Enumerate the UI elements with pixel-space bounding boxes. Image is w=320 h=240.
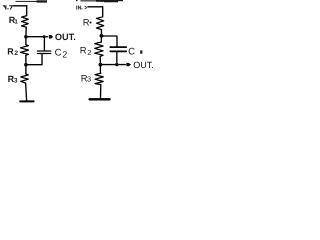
wire C2 top lead: [43, 37, 45, 51]
svg-text:R: R: [80, 45, 87, 56]
svg-text:2: 2: [87, 48, 91, 57]
svg-text:3: 3: [87, 75, 91, 84]
ground (right): [90, 98, 110, 100]
resistor R2 (right): [95, 42, 103, 56]
arrowhead OUT (right): [126, 63, 131, 66]
label C2: [55, 47, 68, 59]
arrowhead OUT (left): [49, 35, 53, 39]
wire node B to OUT arrow (right): [100, 64, 125, 66]
wire node B down to R3 (right): [99, 65, 101, 73]
wire C2 bottom lead to node B: [26, 54, 42, 65]
resistor R1 (right): [97, 17, 104, 30]
svg-text:OUT.: OUT.: [55, 32, 76, 42]
capacitor C1: [110, 46, 126, 48]
junction dot C2 tap: [43, 35, 46, 38]
node A junction dot (right): [100, 34, 104, 38]
wire R2 bottom to node B: [25, 55, 27, 64]
capacitor C2: [37, 50, 50, 52]
wire node A to OUT arrow: [26, 36, 48, 38]
svg-text:C: C: [55, 47, 62, 58]
label R3 (left): [8, 74, 18, 85]
svg-text:2: 2: [62, 50, 67, 60]
crop artifact bar top-left: [16, 0, 48, 2]
wire right input horizontal to corner: [88, 6, 103, 8]
junction dot C1 bottom tap: [115, 63, 118, 66]
svg-text:R: R: [7, 46, 14, 56]
wire node A down to R2 (left): [25, 37, 27, 45]
label R1 (right): [83, 16, 92, 27]
wire node B down to R3 (left): [25, 65, 27, 74]
wire node A down to R2 (right): [100, 36, 102, 42]
node B junction dot (right): [99, 63, 103, 67]
ground (left): [20, 100, 33, 102]
label R2 (right): [80, 45, 92, 57]
wire C1 bottom lead to node line: [116, 52, 118, 65]
node label IN (left input): [3, 6, 12, 10]
wire R3 bottom to ground (right): [100, 84, 102, 97]
node A junction dot (left): [24, 35, 28, 39]
label R2 (left): [7, 46, 18, 57]
wire node A to C1 top: [101, 36, 117, 46]
label R3 (right): [81, 73, 91, 84]
svg-text:2: 2: [14, 50, 18, 57]
label C1: [128, 47, 142, 58]
node B junction dot (left): [24, 63, 28, 67]
svg-text:1: 1: [14, 19, 18, 26]
label R1 (left): [9, 15, 19, 26]
svg-text:R: R: [83, 16, 90, 27]
node label IN (right input): [77, 6, 87, 9]
wire left corner down to R1: [26, 6, 28, 16]
crop artifact bar top-right: [76, 0, 123, 2]
wire right corner down to R1: [102, 7, 104, 17]
wire R1 bottom to node A: [25, 27, 27, 37]
wire left input horizontal to corner: [14, 5, 27, 7]
svg-text:C: C: [128, 47, 135, 58]
wire R2 bottom to node B (right): [99, 56, 101, 64]
resistor R3 (left): [21, 74, 29, 83]
wire R3 bottom to ground (left): [26, 83, 27, 100]
resistor R1 (left): [22, 16, 29, 28]
resistor R3 (right): [95, 73, 103, 84]
svg-text:3: 3: [14, 77, 18, 84]
svg-text:OUT.: OUT.: [133, 60, 153, 70]
resistor R2 (left): [20, 45, 28, 55]
wire R1 bottom to node A (right): [100, 30, 102, 36]
